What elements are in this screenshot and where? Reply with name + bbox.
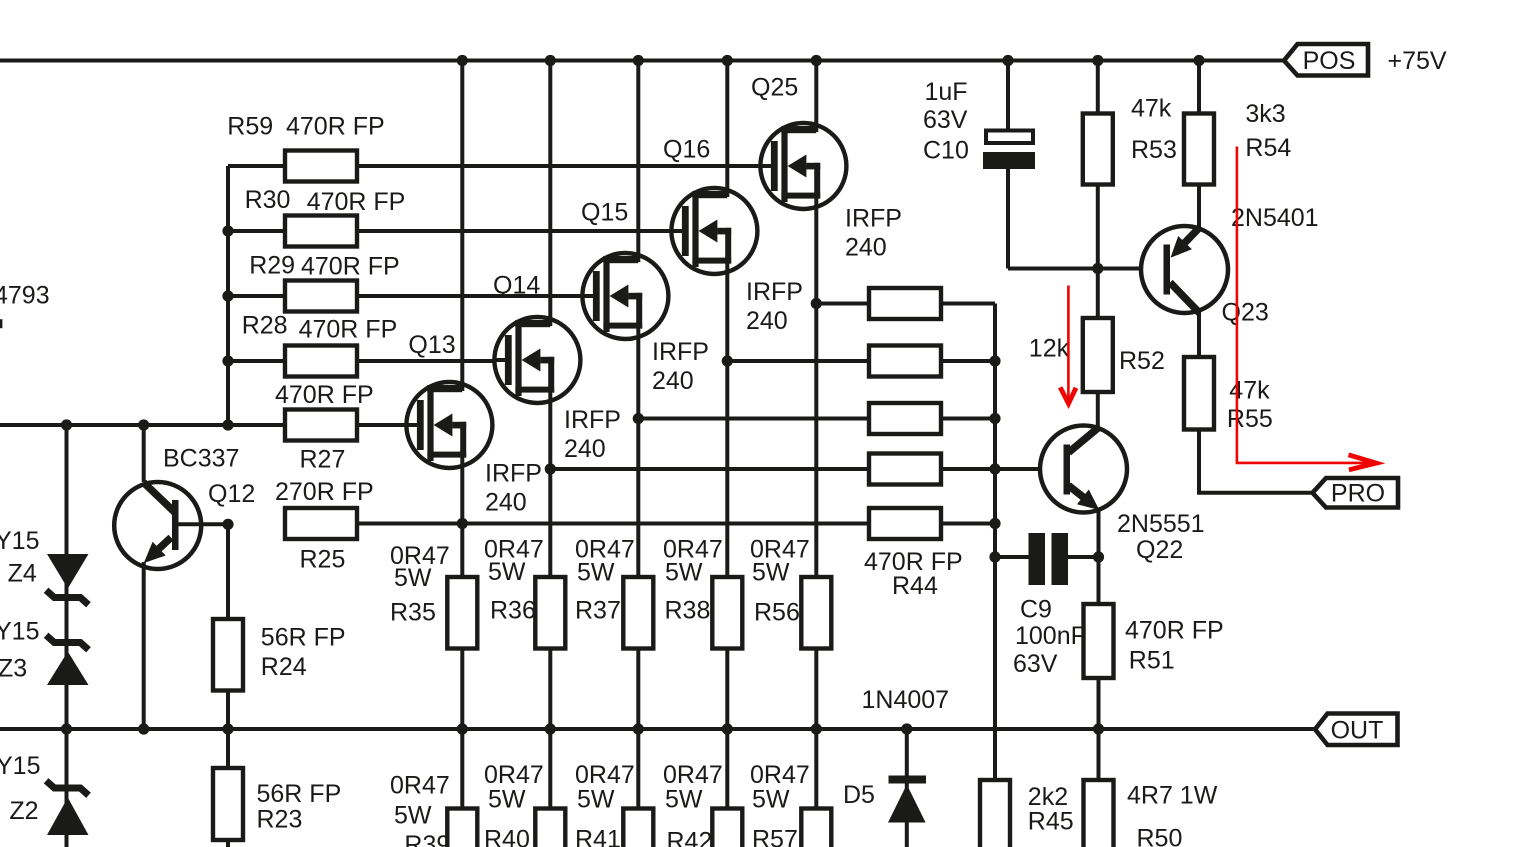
wire R41 top lead (636, 729, 640, 810)
svg-text:5W: 5W (752, 559, 790, 587)
wire gate row (357, 423, 406, 427)
svg-text:IRFP: IRFP (652, 338, 709, 366)
wire R24 to OUT rail (226, 691, 230, 730)
resistor R28 470R FP (242, 312, 398, 377)
resistor R57 0R47 5W (750, 761, 831, 847)
wire R42 top lead (725, 729, 729, 810)
svg-text:5W: 5W (577, 786, 615, 814)
svg-text:5W: 5W (394, 802, 432, 830)
svg-text:R54: R54 (1245, 134, 1291, 162)
resistor R45 2k2 (980, 780, 1074, 847)
wire source row (550, 467, 869, 471)
wire D5 column (905, 729, 909, 847)
resistor R39 0R47 5W (390, 772, 477, 847)
svg-text:R55: R55 (1227, 405, 1273, 433)
svg-text:270R FP: 270R FP (275, 478, 374, 506)
svg-text:R45: R45 (1028, 808, 1074, 836)
svg-text:+75V: +75V (1388, 47, 1447, 75)
svg-text:1N4007: 1N4007 (862, 686, 950, 714)
transistor Q12 BC337 (114, 445, 255, 570)
wire to OUT rail (814, 649, 818, 730)
wire drain lead (814, 61, 818, 133)
svg-text:Z3: Z3 (0, 655, 27, 683)
wire gate row (357, 229, 671, 233)
svg-text:R39: R39 (404, 831, 450, 847)
resistor R38 0R47 5W (663, 536, 742, 649)
svg-text:Q15: Q15 (581, 199, 628, 227)
svg-text:5W: 5W (488, 558, 526, 586)
svg-text:Y15: Y15 (0, 527, 39, 555)
wire R54 top lead (1197, 61, 1201, 114)
svg-text:IRFP: IRFP (485, 460, 542, 488)
svg-text:2N5401: 2N5401 (1231, 204, 1319, 232)
wire R57 top lead (814, 729, 818, 810)
resistor R24 56R FP (213, 619, 346, 691)
wire R55 to PRO (1199, 430, 1313, 493)
node emitter/C9 junction (1093, 551, 1104, 562)
transistor Q23 2N5401 (1141, 204, 1319, 327)
resistor R30 470R FP (245, 186, 406, 247)
diode D5 1N4007 (843, 686, 949, 823)
svg-text:Y15: Y15 (0, 752, 40, 780)
svg-text:240: 240 (845, 234, 887, 262)
MOSFET Q14 IRFP240 (493, 272, 621, 464)
svg-text:100nF: 100nF (1015, 622, 1086, 650)
svg-text:63V: 63V (1013, 650, 1058, 678)
resistor 470R FP (R44 bank row 2) (869, 346, 941, 377)
svg-text:Z4: Z4 (8, 560, 37, 588)
connector OUT (1315, 714, 1398, 746)
wire R39 top lead (460, 729, 464, 810)
svg-text:240: 240 (485, 489, 527, 517)
wire source lead (725, 259, 729, 577)
zener Z3 Y15 (0, 618, 89, 686)
svg-text:R53: R53 (1131, 136, 1177, 164)
capacitor C10 1uF 63V (923, 61, 1098, 269)
svg-text:2N5551: 2N5551 (1117, 510, 1205, 538)
node Q12 base junction (222, 519, 233, 530)
node source column junction (545, 463, 556, 474)
resistor 470R FP (R44 bank row 3) (869, 403, 941, 434)
svg-text:470R FP: 470R FP (301, 253, 400, 281)
svg-text:R57: R57 (752, 826, 798, 847)
svg-text:1uF: 1uF (925, 78, 968, 106)
node right bus junctions (989, 355, 1000, 562)
svg-text:Q16: Q16 (663, 136, 710, 164)
svg-text:470R FP: 470R FP (1125, 617, 1224, 645)
wire Q12 collector lead (142, 425, 146, 482)
resistor R53 47k (1083, 95, 1177, 185)
wire R51 to OUT (1097, 678, 1101, 729)
svg-text:R30: R30 (245, 186, 291, 214)
svg-text:R23: R23 (257, 806, 303, 834)
wire Q22 base lead (995, 467, 1064, 471)
svg-text:R52: R52 (1119, 347, 1165, 375)
svg-text:Q22: Q22 (1136, 536, 1183, 564)
wire drain lead (725, 61, 729, 198)
wire bus stubs to resistors (228, 166, 285, 361)
svg-text:R24: R24 (261, 653, 307, 681)
resistor R41 0R47 5W (575, 761, 653, 847)
svg-text:Q25: Q25 (751, 74, 798, 102)
wire to OUT rail (548, 649, 552, 730)
svg-text:R38: R38 (665, 597, 711, 625)
wire R54 to Q23 emitter (1197, 185, 1201, 230)
svg-text:Q14: Q14 (493, 272, 540, 300)
wire source lead (814, 194, 818, 577)
wire base to R24 (226, 524, 230, 619)
wire +75V positive rail (0, 59, 1284, 63)
wire to right bus (941, 522, 995, 526)
resistor R55 47k (1184, 357, 1273, 433)
resistor R54 3k3 (1184, 100, 1291, 185)
wire source lead (548, 388, 552, 577)
svg-text:47k: 47k (1229, 377, 1270, 405)
node drive line junctions (61, 419, 149, 430)
resistor R51 470R FP (1084, 604, 1224, 678)
wire drain lead (460, 61, 464, 392)
wire drive line from left edge to R27 (0, 423, 285, 427)
svg-text:4793: 4793 (0, 282, 50, 310)
svg-text:R56: R56 (754, 599, 800, 627)
wire R40 top lead (548, 729, 552, 810)
svg-text:470R FP: 470R FP (299, 316, 398, 344)
resistor 470R FP (R44 bank row 5) (869, 508, 941, 539)
node source column junction (457, 518, 468, 529)
svg-text:Q23: Q23 (1222, 299, 1269, 327)
svg-text:C10: C10 (923, 137, 969, 165)
svg-text:Y15: Y15 (0, 618, 39, 646)
svg-text:Q13: Q13 (408, 331, 455, 359)
wire R23 down (226, 840, 230, 847)
svg-text:R40: R40 (484, 826, 530, 847)
svg-text:R41: R41 (575, 826, 621, 847)
wire source row (727, 359, 869, 363)
svg-text:Z2: Z2 (9, 797, 38, 825)
svg-text:470R FP: 470R FP (307, 188, 406, 216)
svg-text:IRFP: IRFP (845, 205, 902, 233)
svg-text:R29: R29 (249, 252, 295, 280)
node bus junction dots (222, 225, 233, 430)
resistor R40 0R47 5W (484, 761, 565, 847)
node POS rail junction dots (457, 55, 1205, 66)
wire drain lead (636, 61, 640, 263)
wire R50 top lead (1097, 729, 1101, 780)
resistor 470R FP (R44 bank row 4) (869, 454, 941, 485)
MOSFET Q13 IRFP240 (405, 331, 542, 517)
wire right gate-drive bus (993, 304, 997, 781)
node source column junction (722, 355, 733, 366)
svg-text:POS: POS (1303, 47, 1356, 75)
svg-text:240: 240 (564, 435, 606, 463)
svg-text:5W: 5W (394, 564, 432, 592)
svg-text:47k: 47k (1131, 95, 1172, 123)
wire Q22 emitter down (1097, 508, 1101, 604)
wire source row (816, 302, 869, 306)
node source column junction (633, 413, 644, 424)
svg-text:470R FP: 470R FP (286, 113, 385, 141)
resistor R52 12k (1029, 318, 1165, 392)
resistor R36 0R47 5W (484, 536, 565, 649)
wire to OUT rail (636, 649, 640, 730)
svg-text:R50: R50 (1137, 825, 1183, 847)
resistor R25 270R FP (275, 478, 374, 574)
wire to right bus (941, 302, 995, 306)
wire base node to Q23 (1098, 267, 1164, 271)
wire gate ladder left bus (226, 166, 230, 425)
resistor R23 56R FP (213, 768, 341, 840)
wire to right bus (941, 467, 995, 471)
zener Z4 Y15 (0, 527, 89, 605)
svg-text:R28: R28 (242, 312, 288, 340)
svg-text:56R FP: 56R FP (257, 780, 342, 808)
svg-text:Q12: Q12 (208, 480, 255, 508)
svg-text:3k3: 3k3 (1245, 100, 1285, 128)
svg-text:IRFP: IRFP (564, 406, 621, 434)
MOSFET Q15 IRFP240 (581, 199, 709, 396)
label R44 470R FP (864, 548, 963, 600)
svg-text:56R FP: 56R FP (261, 624, 346, 652)
wire to right bus (941, 359, 995, 363)
svg-text:C9: C9 (1020, 596, 1052, 624)
wire source lead (636, 324, 640, 577)
svg-text:R44: R44 (892, 572, 938, 600)
wire source row (357, 522, 869, 526)
connector PRO (1313, 478, 1399, 508)
wire gate row (357, 294, 582, 298)
svg-text:R36: R36 (490, 597, 536, 625)
wire to right bus (941, 417, 995, 421)
wire Q22 collector up (1096, 392, 1100, 429)
svg-text:R37: R37 (575, 597, 621, 625)
svg-text:5W: 5W (752, 786, 790, 814)
svg-text:R59: R59 (227, 113, 273, 141)
resistor 470R FP (R44 bank row 1) (869, 288, 941, 319)
MOSFET Q25 IRFP240 (751, 74, 902, 262)
wire OUT rail (0, 727, 1315, 731)
annotation red arrow at 12k (1060, 286, 1076, 404)
svg-text:5W: 5W (577, 559, 615, 587)
wire OUT to R23 (226, 729, 230, 768)
wire zener column (65, 425, 69, 847)
resistor R42 0R47 5W (663, 761, 742, 847)
wire gate row (357, 359, 494, 363)
svg-text:240: 240 (652, 367, 694, 395)
resistor R35 0R47 5W (390, 542, 477, 649)
wire Q23 collector to R55 (1197, 312, 1201, 357)
svg-text:D5: D5 (843, 781, 875, 809)
svg-text:5W: 5W (488, 786, 526, 814)
resistor R56 0R47 5W (750, 536, 831, 649)
wire source lead (460, 453, 464, 577)
annotation red arrow to PRO (1237, 147, 1376, 470)
svg-text:OUT: OUT (1331, 717, 1384, 745)
svg-text:R25: R25 (300, 546, 346, 574)
svg-text:5W: 5W (665, 559, 703, 587)
transistor Q22 2N5551 (1040, 426, 1205, 565)
svg-text:12k: 12k (1029, 335, 1070, 363)
resistor R29 470R FP (249, 252, 399, 312)
wire gate row (357, 164, 760, 168)
wire Q12 emitter to OUT (142, 562, 146, 729)
svg-text:470R FP: 470R FP (275, 381, 374, 409)
svg-text:240: 240 (746, 307, 788, 335)
MOSFET Q16 IRFP240 (663, 136, 803, 336)
wire R53 top lead (1096, 61, 1100, 114)
svg-text:IRFP: IRFP (746, 278, 803, 306)
svg-text:BC337: BC337 (163, 445, 239, 473)
resistor R27 470R FP (275, 381, 374, 474)
svg-text:R51: R51 (1129, 647, 1175, 675)
zener Z2 Y15 (0, 752, 89, 835)
wire drain lead (548, 61, 552, 327)
svg-text:R42: R42 (667, 828, 713, 847)
svg-text:R27: R27 (300, 446, 346, 474)
node base junction (1092, 263, 1103, 274)
connector POS (1284, 44, 1368, 76)
wire source row (638, 417, 869, 421)
resistor R50 4R7 1W (1084, 780, 1218, 847)
wire R53 to base node (1096, 185, 1100, 269)
svg-text:63V: 63V (923, 106, 968, 134)
resistor R59 470R FP (227, 113, 384, 182)
node source column junction (811, 298, 822, 309)
svg-text:R35: R35 (390, 599, 436, 627)
wire to OUT rail (725, 649, 729, 730)
svg-text:PRO: PRO (1331, 480, 1385, 508)
resistor R37 0R47 5W (575, 536, 653, 649)
svg-text:4R7 1W: 4R7 1W (1127, 782, 1218, 810)
svg-text:5W: 5W (665, 786, 703, 814)
capacitor C9 100nF 63V (995, 533, 1099, 678)
node OUT rail junctions (61, 723, 1104, 734)
wire base node to R52 (1096, 269, 1100, 319)
wire to OUT rail (460, 649, 464, 730)
svg-text:0R47: 0R47 (390, 772, 450, 800)
label fragment (0, 319, 2, 328)
